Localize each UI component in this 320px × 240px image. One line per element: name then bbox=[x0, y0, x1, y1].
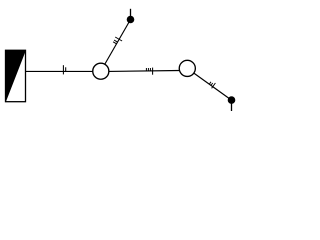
neutral tick long on L1 bbox=[115, 37, 122, 41]
bus node B2 bbox=[179, 60, 195, 76]
wire W1 bbox=[26, 70, 94, 72]
branch line L1 bbox=[105, 20, 131, 65]
load terminal dot 1 bbox=[127, 16, 134, 23]
neutral tick long on W2 bbox=[152, 68, 154, 75]
terminal stub above load dot 1 bbox=[130, 9, 132, 17]
terminal stub below load dot 2 bbox=[231, 103, 233, 111]
load terminal dot 2 bbox=[228, 97, 235, 104]
neutral tick long on W1 bbox=[62, 65, 64, 74]
phase tick short on W1 bbox=[65, 67, 67, 71]
phase tick short 1 on L2 bbox=[209, 82, 211, 84]
bus node B1 bbox=[93, 63, 109, 79]
phase tick short 2 on L1 bbox=[114, 40, 117, 42]
wire W2 bbox=[109, 70, 180, 73]
phase tick short 1 on L1 bbox=[113, 42, 116, 44]
branch line L2 bbox=[194, 73, 232, 100]
phase tick short 2 on W2 bbox=[147, 68, 149, 71]
phase tick short 3 on W2 bbox=[149, 68, 151, 71]
neutral tick long on L2 bbox=[212, 83, 216, 88]
phase tick short 2 on L2 bbox=[211, 83, 213, 85]
phase tick short 1 on W2 bbox=[145, 68, 147, 71]
external grid source G1 bbox=[6, 50, 26, 101]
